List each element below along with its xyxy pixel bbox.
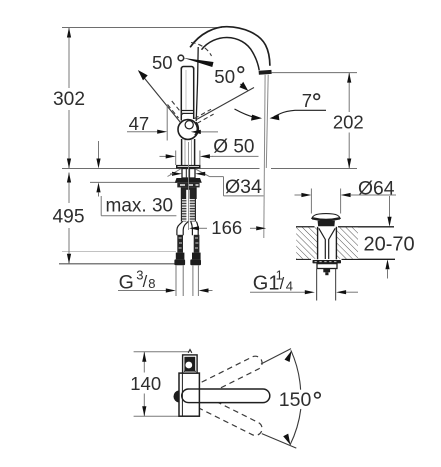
dim 202 <box>348 73 350 112</box>
lever knob (top view) <box>183 355 198 373</box>
D64 extension lines <box>310 189 312 214</box>
dimension line 302/495 <box>68 28 70 89</box>
centre axis line <box>188 142 190 230</box>
spout root behind lever <box>196 47 198 121</box>
overflow nipple <box>323 269 330 273</box>
dashed spout upper position <box>193 354 264 399</box>
side bump on body <box>173 390 178 402</box>
svg-text:50: 50 <box>214 66 235 87</box>
svg-text:/: / <box>143 273 148 291</box>
D64 arrows <box>295 194 302 196</box>
solid spout (top view) <box>190 389 270 403</box>
spout outlet mousseur <box>259 70 272 75</box>
dim max30 <box>98 141 100 159</box>
svg-text:max. 30: max. 30 <box>106 196 174 217</box>
bottom reference line (hose ends) <box>59 263 177 265</box>
spout arc outer <box>190 27 270 66</box>
lower boundary line <box>262 434 297 449</box>
spout arc inner <box>202 37 260 70</box>
svg-text:166: 166 <box>211 217 242 238</box>
faint hose-length line <box>62 251 176 253</box>
left 50-degree fan line <box>139 72 181 123</box>
dim D50 extension lines <box>175 151 177 166</box>
svg-text:20-70: 20-70 <box>364 234 415 256</box>
lock nut <box>317 264 337 269</box>
tail pipe <box>316 269 318 301</box>
svg-text:7: 7 <box>302 90 312 111</box>
counter bottom line <box>296 258 311 260</box>
dim 202 reference line <box>272 72 357 74</box>
escutcheon base <box>176 165 201 169</box>
lever handle (vertical position) <box>180 68 182 121</box>
drain body walls <box>317 227 319 259</box>
mounting nut <box>177 183 199 188</box>
150 degree arc <box>291 350 301 389</box>
body (top view) <box>179 373 199 416</box>
hatch left block <box>296 227 317 258</box>
dim 140 line <box>143 352 145 373</box>
dim 47 <box>166 105 168 141</box>
svg-text:8: 8 <box>148 276 155 291</box>
right dashed lever position <box>195 109 212 118</box>
threaded shank <box>181 187 197 199</box>
G3/8 dimension <box>175 266 177 297</box>
svg-text:Ø34: Ø34 <box>225 176 262 198</box>
svg-text:/: / <box>280 275 285 293</box>
right 50 label leader arrow <box>241 84 245 87</box>
svg-text:47: 47 <box>129 113 150 134</box>
upper boundary line <box>261 349 291 364</box>
left supply hose <box>177 222 183 236</box>
dim D34 leader <box>168 169 181 177</box>
water stream lines <box>264 75 265 238</box>
max30 bottom line <box>90 181 177 183</box>
dim 140 reference lines <box>134 351 189 353</box>
drain funnel <box>319 228 326 259</box>
spout lines inside body <box>189 388 200 390</box>
left 50 label arrow to lever <box>183 58 213 67</box>
svg-text:140: 140 <box>130 373 161 394</box>
hose threaded ends <box>177 235 183 253</box>
svg-text:4: 4 <box>286 278 293 293</box>
pop-up waste dome cap <box>312 214 340 220</box>
cap dark base <box>312 218 340 220</box>
left fan arrowhead <box>138 70 148 80</box>
left dashed lever position <box>168 105 179 119</box>
deck reference line <box>62 168 260 170</box>
right supply hose <box>191 222 193 236</box>
faucet column <box>181 139 183 165</box>
knurled lock washer <box>313 260 342 263</box>
hose end nuts <box>176 253 185 260</box>
svg-text:302: 302 <box>53 89 85 110</box>
svg-text:495: 495 <box>52 206 84 227</box>
svg-text:Ø 50: Ø 50 <box>213 136 254 157</box>
dim D50 arrows <box>160 155 167 157</box>
dashed lever trajectory arc <box>191 43 212 57</box>
G1 1/4 dimension <box>250 291 305 293</box>
arc arrowheads <box>285 351 292 362</box>
svg-text:50: 50 <box>152 52 173 73</box>
dim 20-70 <box>389 196 391 217</box>
hatch right block <box>337 227 358 258</box>
dashed spout lower position <box>193 393 264 438</box>
7 degree indicator arcs <box>235 109 257 118</box>
right 50-degree fan line <box>197 88 255 120</box>
horseshoe washer <box>175 178 202 183</box>
counter top line <box>296 226 315 228</box>
dim 166 <box>189 226 199 230</box>
svg-text:150: 150 <box>279 389 312 411</box>
svg-text:202: 202 <box>333 112 364 133</box>
shank box (D34) <box>182 169 195 179</box>
ball joint <box>178 120 198 140</box>
top reference line <box>62 27 222 29</box>
max30 bracket <box>100 196 102 216</box>
